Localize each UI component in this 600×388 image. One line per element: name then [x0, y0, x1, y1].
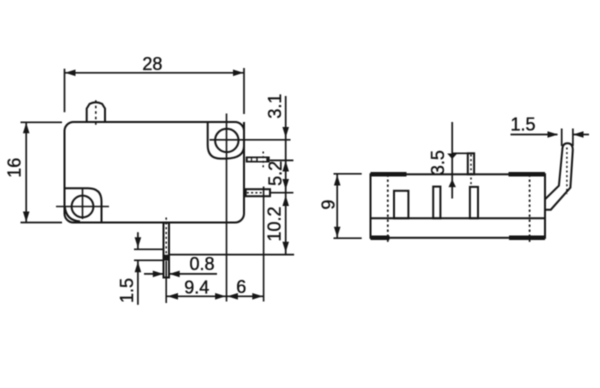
top hole crosshair horizontal	[210, 139, 291, 141]
0.8 right-pointing arrow	[153, 271, 164, 278]
shared up arrow at 160.4	[282, 161, 289, 172]
3.1 down arrow	[282, 127, 289, 138]
mounting hole bottom-left	[72, 196, 94, 218]
dimension texts front view	[4, 54, 285, 303]
svg-text:0.8: 0.8	[189, 254, 214, 274]
bent lever terminal	[545, 143, 573, 210]
top hole centerline vertical (extension to 9.4 dim)	[226, 114, 228, 302]
terminal T1 (upper right, filled with slots)	[246, 157, 270, 163]
upstanding terminal	[468, 153, 474, 174]
T2 dashed centerline	[247, 192, 262, 194]
hidden hole line left	[387, 175, 389, 244]
mounting hole top-right	[215, 129, 238, 152]
10.2 up arrow	[282, 196, 289, 207]
front view: plunger button	[87, 102, 105, 122]
bottom hole crosshair vertical	[82, 189, 84, 219]
ext line from T2	[270, 192, 293, 194]
hidden hole line right	[529, 175, 531, 244]
front view: switch body outline	[65, 122, 245, 223]
9.4 / 6 dim line	[167, 295, 263, 297]
internal parting line	[371, 217, 546, 219]
dim 28 line	[65, 72, 244, 74]
mounting boss top-right	[208, 122, 244, 159]
bottom terminal notch	[164, 255, 170, 261]
lever dotted centerline	[566, 148, 568, 195]
1.5 right-pointing arrow	[548, 131, 559, 138]
6 arrows	[227, 293, 238, 300]
dim 3.5 line	[451, 122, 453, 199]
terminal T2 (lower right)	[246, 189, 270, 196]
side body outline	[371, 174, 546, 238]
9 arrows	[334, 175, 341, 186]
ext line from T1	[270, 159, 294, 161]
9.4 arrows	[168, 293, 179, 300]
dim 9 line	[336, 174, 338, 238]
3.5 down arrow (below line)	[447, 154, 457, 160]
1.5 dim line segments	[137, 232, 139, 249]
internal terminal R2	[433, 187, 440, 219]
0.8 dim lines	[144, 273, 163, 275]
internal terminal R1	[394, 191, 408, 219]
T2 end extension line going down (for 6 dim)	[263, 187, 265, 302]
svg-text:9: 9	[318, 200, 338, 210]
thick edge segments	[371, 174, 546, 238]
svg-text:3.5: 3.5	[428, 150, 448, 175]
terminal top ext line	[453, 152, 474, 154]
28 arrows	[65, 70, 76, 77]
dim 28 extension lines	[64, 69, 66, 113]
dim 1.5 side: line + ext lines	[511, 134, 558, 136]
0.8 left-pointing arrow	[169, 271, 180, 278]
svg-text:3.1: 3.1	[265, 94, 285, 119]
upstanding terminal dashed centerline	[470, 155, 472, 188]
svg-text:6: 6	[236, 277, 246, 297]
bottom terminal strip	[164, 223, 170, 278]
svg-text:1.5: 1.5	[510, 115, 535, 135]
dimensions side view	[334, 122, 590, 238]
ext line for 10.2 bottom	[169, 254, 294, 256]
svg-text:28: 28	[142, 54, 162, 74]
3.5 up arrow (below body top line)	[449, 179, 456, 187]
plunger centerline	[95, 100, 97, 126]
dim 9 ext lines	[334, 173, 362, 175]
svg-text:5.2: 5.2	[266, 161, 286, 186]
right stack dim line	[285, 96, 287, 255]
dim 16 line	[25, 123, 27, 222]
svg-text:16: 16	[4, 158, 24, 178]
svg-text:9.4: 9.4	[184, 277, 209, 297]
bottom terminal dashed centerline	[165, 218, 167, 262]
boss inner corner arc	[65, 207, 80, 222]
1.5 down arrow	[135, 237, 142, 248]
svg-text:1.5: 1.5	[117, 278, 137, 303]
16 arrows	[23, 123, 30, 134]
mounting boss bottom-left	[65, 188, 102, 222]
dim 16 extension lines	[21, 121, 63, 123]
10.2 down arrow	[282, 242, 289, 253]
arrowheads front view	[23, 70, 289, 300]
bottom hole crosshair horizontal	[56, 206, 109, 208]
5.2 down arrow	[282, 179, 289, 190]
1.5 up arrow	[135, 262, 142, 273]
internal terminal R3	[470, 187, 478, 218]
T1 hole centerline dotted	[262, 152, 264, 169]
svg-text:10.2: 10.2	[264, 206, 284, 241]
1.5 ext lines	[134, 248, 164, 250]
1.5 left-pointing arrow	[573, 131, 584, 138]
bottom terminal extension line down (9.4 dim)	[165, 261, 167, 303]
